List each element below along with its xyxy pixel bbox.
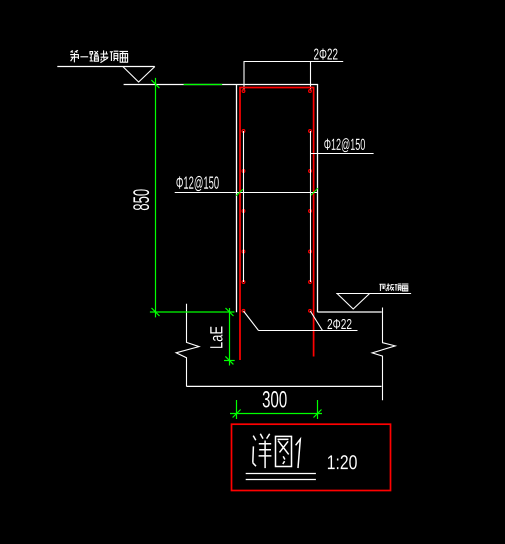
elevation triangle (first step top surface) <box>123 67 155 83</box>
label phi12@150 left: text <box>176 176 218 191</box>
第 <box>70 50 79 62</box>
踏 <box>90 51 99 61</box>
rebar stirrup (red U shape) <box>240 88 314 361</box>
dimension 300: line and extensions <box>230 400 322 419</box>
bottom rebar label 2phi22 leader <box>244 311 358 331</box>
title box (red) <box>232 424 391 490</box>
顶 <box>110 51 119 61</box>
一 <box>80 56 88 58</box>
title double underline <box>246 474 316 480</box>
inner vertical bars (white) <box>244 131 311 282</box>
slab top surface right <box>318 311 382 313</box>
dimension LaE: text <box>210 326 222 347</box>
dimension LaE: line <box>224 308 235 366</box>
label: first step top surface (第一踏步顶面) glyph strokes <box>70 50 128 62</box>
面 <box>402 284 409 291</box>
slab elevation triangle <box>337 294 370 310</box>
步 <box>100 50 108 62</box>
底 <box>379 284 386 291</box>
label: slab top surface (底板顶面) glyph strokes <box>379 283 408 291</box>
label phi12@150 right: leader line <box>311 153 374 155</box>
图 <box>276 436 292 466</box>
rebar dots left column <box>242 90 245 313</box>
bottom rebar label 2phi22 text <box>328 319 352 329</box>
elevation label underline (top-left) <box>57 66 154 68</box>
wall right face <box>317 85 319 313</box>
label phi12@150 left: leader line <box>175 192 318 194</box>
slab bottom line <box>187 385 382 387</box>
slab right edge with break <box>372 308 395 401</box>
slab left edge with break <box>176 304 199 387</box>
wall left face <box>236 85 238 313</box>
面 <box>119 51 128 62</box>
rebar dots right column <box>309 90 312 313</box>
top rebar label 2phi22 leader <box>244 62 344 91</box>
顶 <box>395 284 402 291</box>
板 <box>387 283 394 291</box>
dimension 850: line <box>151 78 222 318</box>
top rebar label 2phi22 text <box>314 48 338 59</box>
1 <box>296 439 301 468</box>
title text 详图1 glyph strokes <box>253 434 301 468</box>
green ticks on left phi label leader <box>236 188 318 196</box>
step surface line / wall top line <box>124 84 319 86</box>
详 <box>253 436 256 467</box>
title scale text 1:20 <box>328 455 357 469</box>
green connector at slab top <box>150 308 235 316</box>
label phi12@150 right: text <box>324 138 365 152</box>
slab label underline <box>336 293 411 295</box>
dimension 850: text <box>133 189 149 210</box>
dimension 300: text <box>263 391 287 407</box>
